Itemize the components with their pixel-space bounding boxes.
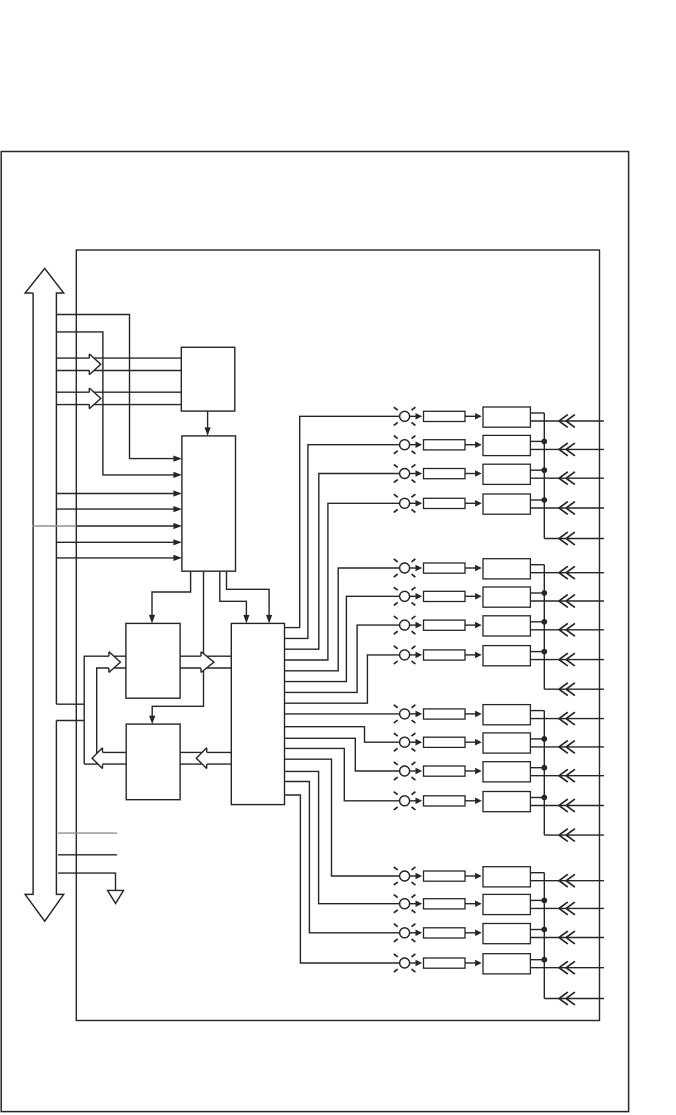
arrow into B2 pin 7 — [173, 555, 182, 561]
input circuit block channel 15 — [483, 924, 530, 944]
indicator lamp channel 10 — [394, 733, 416, 751]
connector pin line channel 6 — [530, 595, 604, 608]
wire B1 to B2 — [207, 411, 209, 427]
wire lamp to filter 5 — [410, 567, 417, 569]
wire filter to input circuit 13 — [465, 875, 476, 877]
wire B5 to channel 10 input — [285, 727, 400, 743]
wire filter to input circuit 9 — [465, 713, 476, 715]
connector pin line channel 3 — [530, 472, 604, 485]
connector pin line channel 5 — [530, 566, 604, 579]
arrow into filter 12 — [416, 798, 423, 805]
wire B2 to B4 — [152, 571, 203, 715]
wire B5 to channel 15 input — [285, 782, 400, 933]
ground wire — [58, 873, 115, 890]
arrow into input circuit 4 — [475, 500, 482, 507]
wire input circuit 12 to common — [530, 797, 544, 799]
indicator lamp channel 3 — [394, 464, 416, 482]
arrow into filter 5 — [416, 565, 423, 572]
channel bus to B3 — [84, 656, 126, 764]
filter block channel 7 — [424, 620, 466, 630]
wire lamp to filter 10 — [410, 741, 417, 743]
arrow into input circuit 1 — [475, 413, 482, 420]
arrow into B2 top — [205, 427, 211, 436]
common return vertical group 4 — [543, 873, 545, 999]
arrow into input circuit 5 — [475, 565, 482, 572]
arrow into filter 9 — [416, 711, 423, 718]
wire filter to input circuit 7 — [465, 624, 476, 626]
indicator lamp channel 6 — [394, 587, 416, 605]
input circuit block channel 6 — [483, 587, 530, 607]
wire filter to input circuit 11 — [465, 770, 476, 772]
wire filter to input circuit 5 — [465, 567, 476, 569]
common connector pin group 1 — [544, 532, 604, 545]
wire input circuit 2 to common — [530, 440, 544, 442]
input circuit block channel 7 — [483, 616, 530, 636]
wire B5 to channel 1 input — [285, 416, 400, 627]
wire B5 to channel 11 input — [285, 738, 400, 771]
wire B5 to channel 12 input — [285, 748, 400, 800]
wire lamp to filter 11 — [410, 770, 417, 772]
indicator lamp channel 8 — [394, 646, 416, 664]
input circuit block channel 9 — [483, 705, 530, 725]
arrow into input circuit 6 — [475, 593, 482, 600]
indicator lamp channel 9 — [394, 705, 416, 723]
wire B5 to channel 8 input — [285, 655, 400, 703]
connector pin line channel 12 — [530, 799, 604, 812]
wire input circuit 3 to common — [530, 469, 544, 471]
connector pin line channel 13 — [530, 874, 604, 887]
wire B5 to channel 14 input — [285, 771, 400, 903]
wire lamp to filter 2 — [410, 444, 417, 446]
common connector pin group 3 — [544, 829, 604, 842]
arrow into filter 7 — [416, 622, 423, 629]
wire input circuit 13 to common — [530, 872, 544, 874]
filter block channel 3 — [424, 469, 466, 479]
wire filter to input circuit 4 — [465, 502, 476, 504]
wire input circuit 7 to common — [530, 621, 544, 623]
input circuit block channel 2 — [483, 435, 530, 455]
wire B5 to channel 16 input — [285, 795, 400, 963]
indicator lamp channel 12 — [394, 792, 416, 810]
wire bus to B2 input 6 — [56, 541, 173, 543]
wire B5 to channel 3 input — [285, 474, 400, 650]
connector pin line channel 10 — [530, 741, 604, 754]
arrow into B2 pin 2 — [173, 472, 182, 478]
wire input circuit 8 to common — [530, 651, 544, 653]
arrow into input circuit 10 — [475, 739, 482, 746]
block B2 decoder — [182, 436, 236, 571]
arrow into filter 13 — [416, 873, 423, 880]
wire filter to input circuit 2 — [465, 444, 476, 446]
filter block channel 1 — [424, 411, 466, 421]
wire lamp to filter 9 — [410, 713, 417, 715]
junction dot channel 12 — [541, 795, 547, 801]
junction dot channel 3 — [541, 467, 547, 473]
wire input circuit 16 to common — [530, 959, 544, 961]
arrow into B2 pin 4 — [173, 506, 182, 512]
input circuit block channel 10 — [483, 733, 530, 753]
arrow into input circuit 15 — [475, 930, 482, 937]
indicator lamp channel 5 — [394, 559, 416, 577]
connector pin line channel 11 — [530, 769, 604, 782]
filter block channel 11 — [424, 766, 466, 776]
common return vertical group 2 — [543, 565, 545, 690]
input circuit block channel 8 — [483, 646, 530, 666]
wire B5 to channel 9 input — [285, 713, 400, 715]
arrow into filter 2 — [416, 441, 423, 448]
data bus arrow into B1 upper — [56, 357, 181, 359]
arrow into input circuit 3 — [475, 470, 482, 477]
block B5 multiplexer — [231, 623, 284, 804]
connector pin line channel 8 — [530, 653, 604, 666]
filter block channel 6 — [424, 591, 466, 601]
common connector pin group 2 — [544, 683, 604, 696]
arrow into input circuit 14 — [475, 900, 482, 907]
filter block channel 16 — [424, 958, 466, 968]
connector pin line channel 14 — [530, 902, 604, 915]
filter block channel 14 — [424, 899, 466, 909]
wire filter to input circuit 15 — [465, 932, 476, 934]
filter block channel 9 — [424, 709, 466, 719]
input circuit block channel 13 — [483, 867, 530, 887]
gray wire segment input 5 — [32, 525, 76, 527]
wire bus to B2 input 1 — [56, 315, 173, 459]
junction dot channel 8 — [541, 649, 547, 655]
wire B5 to channel 5 input — [285, 568, 400, 671]
wire input circuit 10 to common — [530, 738, 544, 740]
gray power rail stub — [58, 832, 117, 834]
wire lamp to filter 16 — [410, 962, 417, 964]
connector pin line channel 2 — [530, 443, 604, 456]
arrow into filter 14 — [416, 900, 423, 907]
junction dot channel 14 — [541, 898, 547, 904]
indicator lamp channel 4 — [394, 494, 416, 512]
common return vertical group 1 — [543, 413, 545, 539]
connector pin line channel 16 — [530, 961, 604, 974]
arrow into B5 top right — [266, 615, 272, 624]
arrow into input circuit 2 — [475, 441, 482, 448]
arrow into B5 top left — [243, 615, 249, 624]
connector pin line channel 4 — [530, 502, 604, 515]
indicator lamp channel 2 — [394, 436, 416, 454]
arrow into B2 pin 5 — [173, 523, 182, 529]
indicator lamp channel 14 — [394, 895, 416, 913]
junction dot channel 4 — [541, 497, 547, 503]
arrow into input circuit 9 — [475, 711, 482, 718]
wire filter to input circuit 14 — [465, 903, 476, 905]
input circuit block channel 5 — [483, 559, 530, 579]
wire B5 to channel 6 input — [285, 596, 400, 681]
wire input circuit 14 to common — [530, 899, 544, 901]
wire B2 to B3 — [152, 571, 191, 615]
filter block channel 12 — [424, 796, 466, 806]
wire lamp to filter 6 — [410, 595, 417, 597]
input circuit block channel 11 — [483, 762, 530, 782]
arrow into filter 15 — [416, 930, 423, 937]
wire bus to B2 input 7 — [56, 557, 173, 559]
filter block channel 4 — [424, 498, 466, 508]
arrow bus from B4 shaft — [96, 751, 126, 753]
common return vertical group 3 — [543, 711, 545, 836]
arrow into filter 11 — [416, 768, 423, 775]
wire input circuit 15 to common — [530, 929, 544, 931]
arrow into input circuit 12 — [475, 798, 482, 805]
ground symbol — [108, 890, 124, 903]
wire filter to input circuit 10 — [465, 741, 476, 743]
module boundary box — [76, 250, 599, 1021]
wire B5 to channel 7 input — [285, 625, 400, 692]
wire input circuit 6 to common — [530, 592, 544, 594]
arrow into B3 top — [149, 615, 155, 624]
wire B5 to channel 13 input — [285, 759, 400, 876]
connector pin line channel 9 — [530, 712, 604, 725]
bus port wires — [56, 703, 84, 705]
junction dot channel 10 — [541, 736, 547, 742]
input circuit block channel 4 — [483, 494, 530, 514]
arrow into filter 3 — [416, 470, 423, 477]
wire input circuit 11 to common — [530, 767, 544, 769]
block B3 register — [126, 623, 180, 698]
wire filter to input circuit 8 — [465, 654, 476, 656]
filter block channel 5 — [424, 563, 466, 573]
bus arrow B3 to B5 — [180, 655, 231, 657]
wire filter to input circuit 1 — [465, 415, 476, 417]
wire B2 to B5 left — [220, 571, 247, 615]
filter block channel 10 — [424, 737, 466, 747]
arrow into filter 4 — [416, 500, 423, 507]
connector pin line channel 1 — [530, 415, 604, 428]
arrow into filter 16 — [416, 960, 423, 967]
wire B5 to channel 4 input — [285, 503, 400, 660]
input circuit block channel 14 — [483, 894, 530, 914]
filter block channel 2 — [424, 440, 466, 450]
wire filter to input circuit 6 — [465, 595, 476, 597]
arrow into B2 pin 3 — [173, 490, 182, 496]
data bus arrow into B1 lower — [56, 391, 181, 393]
indicator lamp channel 15 — [394, 924, 416, 942]
arrow into input circuit 7 — [475, 622, 482, 629]
arrow into input circuit 16 — [475, 960, 482, 967]
junction dot channel 2 — [541, 439, 547, 445]
junction dot channel 7 — [541, 619, 547, 625]
arrow into B2 pin 6 — [173, 539, 182, 545]
junction dot channel 16 — [541, 957, 547, 963]
arrow into filter 6 — [416, 593, 423, 600]
indicator lamp channel 11 — [394, 762, 416, 780]
junction dot channel 11 — [541, 765, 547, 771]
filter block channel 8 — [424, 650, 466, 660]
common connector pin group 4 — [544, 992, 604, 1005]
wire input circuit 4 to common — [530, 499, 544, 501]
arrow head from B4 pointing left — [92, 748, 102, 769]
indicator lamp channel 1 — [394, 407, 416, 425]
block B4 register — [126, 724, 180, 800]
arrow into B2 pin 1 — [173, 456, 182, 462]
filter block channel 15 — [424, 928, 466, 938]
arrow into filter 8 — [416, 652, 423, 659]
indicator lamp channel 7 — [394, 616, 416, 634]
wire to B2 input 5 — [76, 525, 173, 527]
indicator lamp channel 13 — [394, 867, 416, 885]
wire lamp to filter 8 — [410, 654, 417, 656]
input circuit block channel 1 — [483, 407, 530, 427]
wire lamp to filter 13 — [410, 875, 417, 877]
junction dot channel 15 — [541, 927, 547, 933]
bus arrow B5 to B4 — [180, 751, 231, 753]
wire lamp to filter 7 — [410, 624, 417, 626]
wire filter to input circuit 16 — [465, 962, 476, 964]
connector pin line channel 7 — [530, 623, 604, 636]
arrow into input circuit 8 — [475, 652, 482, 659]
wire bus to B2 input 4 — [56, 508, 173, 510]
arrow into input circuit 11 — [475, 768, 482, 775]
wire lamp to filter 1 — [410, 415, 417, 417]
wire filter to input circuit 12 — [465, 800, 476, 802]
input circuit block channel 3 — [483, 464, 530, 484]
wire filter to input circuit 3 — [465, 473, 476, 475]
block B1 control — [181, 347, 235, 411]
input circuit block channel 12 — [483, 792, 530, 812]
wire bus to B2 input 2 — [56, 332, 173, 475]
input circuit block channel 16 — [483, 954, 530, 974]
power rail stub — [58, 854, 117, 856]
arrow into filter 10 — [416, 739, 423, 746]
wire lamp to filter 12 — [410, 800, 417, 802]
arrow into filter 1 — [416, 413, 423, 420]
arrow into B4 top — [149, 716, 155, 725]
wire bus to B2 input 3 — [56, 493, 173, 495]
arrow head into B3 — [109, 652, 121, 673]
wire lamp to filter 14 — [410, 903, 417, 905]
wire lamp to filter 3 — [410, 473, 417, 475]
arrow into input circuit 13 — [475, 873, 482, 880]
junction dot channel 6 — [541, 590, 547, 596]
wire input circuit 1 to common — [530, 412, 544, 414]
outer page border — [1, 152, 628, 1112]
wire lamp to filter 4 — [410, 502, 417, 504]
system bus double arrow — [25, 268, 64, 921]
wire input circuit 9 to common — [530, 710, 544, 712]
wire lamp to filter 15 — [410, 932, 417, 934]
wire B5 to channel 2 input — [285, 445, 400, 639]
filter block channel 13 — [424, 871, 466, 881]
wire B2 to B5 right — [227, 571, 270, 615]
indicator lamp channel 16 — [394, 954, 416, 972]
wire input circuit 5 to common — [530, 564, 544, 566]
connector pin line channel 15 — [530, 931, 604, 944]
